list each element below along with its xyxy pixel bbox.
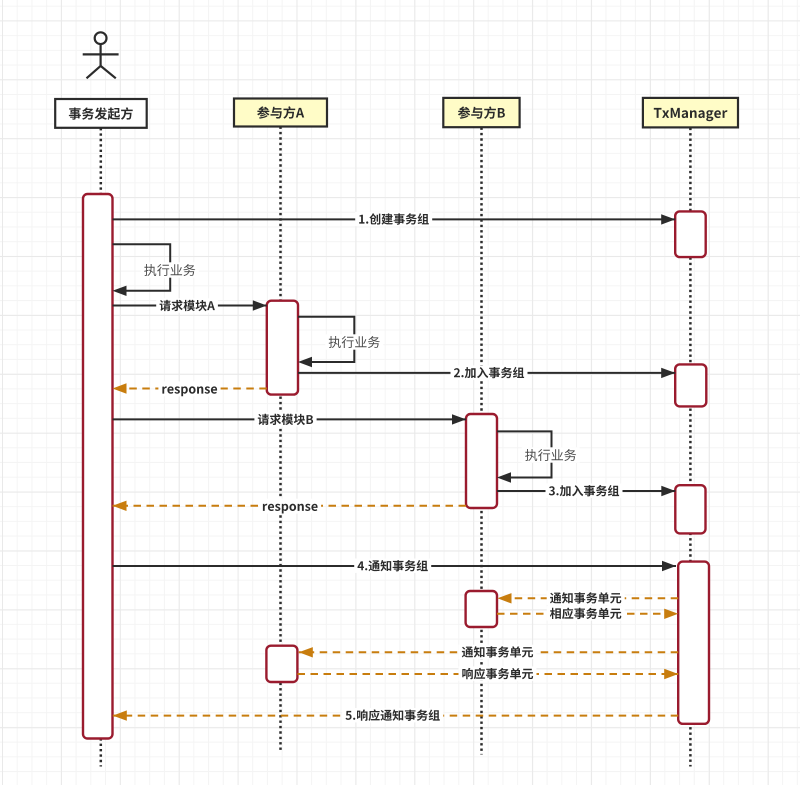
- label 执行业务 1: [141, 262, 199, 277]
- message 请求模块B: [113, 414, 467, 424]
- header label 参与方B: [458, 106, 505, 119]
- message 3.加入事务组: [497, 486, 675, 496]
- header 事务发起方: [55, 99, 147, 128]
- label 执行业务 3: [522, 447, 580, 462]
- label 请求模块B: [254, 412, 316, 426]
- label 4.通知事务组: [354, 559, 431, 573]
- lifeline TxManager: [689, 128, 692, 767]
- lifeline 事务发起方: [100, 128, 103, 767]
- header TxManager: [643, 98, 738, 128]
- message 通知事务单元 to B: [498, 593, 679, 603]
- self message 执行业务 on 参与方B: [497, 431, 552, 482]
- activation 参与方A 1: [267, 301, 298, 395]
- message response 2: [113, 501, 467, 511]
- label 请求模块A: [156, 298, 218, 312]
- label response 2: [259, 499, 321, 514]
- message 2.加入事务组: [298, 368, 675, 378]
- label 5.响应通知事务组: [342, 708, 443, 722]
- actor 事务发起方: [83, 32, 119, 78]
- label 执行业务 2: [325, 334, 383, 349]
- activation 事务发起方 main: [83, 194, 113, 739]
- activation 参与方B 2: [466, 591, 497, 627]
- activation 参与方A 2: [266, 646, 297, 682]
- message response 1: [113, 383, 267, 393]
- label response 1: [158, 381, 220, 396]
- header label 事务发起方: [69, 107, 133, 120]
- activation TxManager 1: [675, 211, 706, 257]
- self message 执行业务 on 事务发起方: [113, 244, 171, 296]
- header label 参与方A: [257, 106, 304, 119]
- activation 参与方B 1: [466, 414, 497, 508]
- lifeline 参与方B: [480, 128, 483, 755]
- message 4.通知事务组: [113, 561, 677, 571]
- label 通知事务单元 2: [459, 645, 537, 659]
- header label TxManager: [654, 108, 728, 121]
- label 响应事务单元: [459, 666, 537, 680]
- message 5.响应通知事务组: [113, 710, 678, 720]
- message 相应事务单元: [497, 609, 678, 619]
- label 2.加入事务组: [451, 365, 528, 379]
- activation TxManager 3: [675, 485, 705, 533]
- self message 执行业务 on 参与方A: [298, 317, 354, 367]
- message 1.创建事务组: [113, 214, 676, 224]
- message 请求模块A: [113, 300, 267, 310]
- message 通知事务单元 to A: [299, 647, 678, 657]
- header 参与方A: [234, 99, 327, 127]
- activation TxManager long: [678, 562, 709, 724]
- message 响应事务单元: [298, 669, 679, 679]
- label 通知事务单元 1: [547, 591, 625, 605]
- lifeline 参与方A: [279, 127, 282, 753]
- label 相应事务单元: [547, 606, 625, 620]
- header 参与方B: [443, 98, 519, 127]
- label 1.创建事务组: [355, 212, 432, 226]
- activation TxManager 2: [675, 364, 706, 406]
- label 3.加入事务组: [546, 484, 623, 498]
